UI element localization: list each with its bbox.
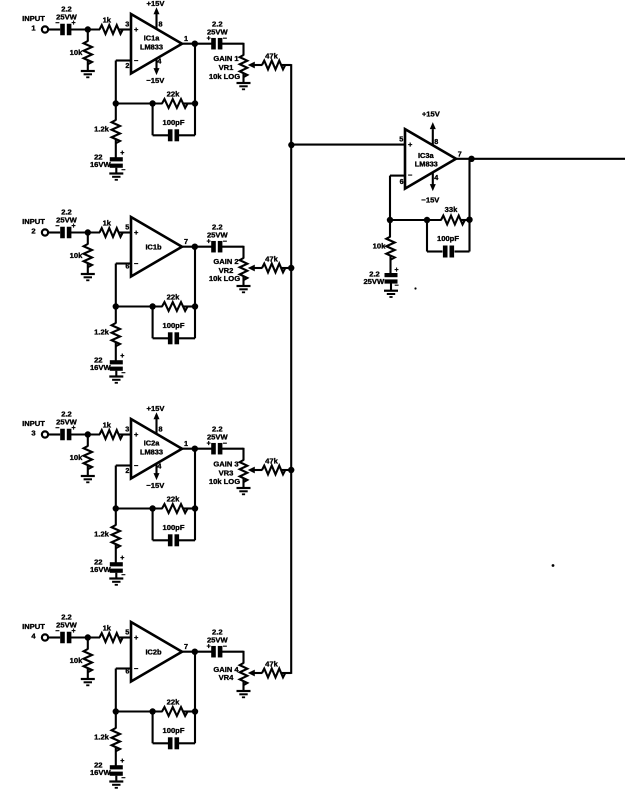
wire ch1 C-gnd to ground xyxy=(115,168,117,174)
svg-text:5: 5 xyxy=(125,223,129,232)
ground below 10k ch4 xyxy=(81,678,95,680)
wire +15V supply IC3a xyxy=(432,129,434,145)
wire ch3 feedback to output node xyxy=(194,449,196,509)
junction IC3a 100pF left node xyxy=(424,217,430,223)
svg-text:4: 4 xyxy=(434,173,438,182)
svg-text:GAIN 2: GAIN 2 xyxy=(213,257,238,266)
capacitor C-gnd ch4 22uF 16VW xyxy=(90,758,125,782)
svg-text:+: + xyxy=(207,644,211,651)
junction 100pF left node ch1 xyxy=(149,100,155,106)
wire ch2 feedback row xyxy=(116,305,163,307)
wire ch3 10k to ground xyxy=(87,466,89,477)
op-amp IC1b ch2 xyxy=(131,217,182,277)
wire -15V supply ch3 xyxy=(155,463,157,473)
wire ch1 op-amp output to C-out xyxy=(182,43,212,45)
ground below C-gnd ch4 xyxy=(109,780,123,782)
svg-text:INPUT: INPUT xyxy=(22,217,45,226)
svg-text:−: − xyxy=(134,56,139,65)
svg-text:+: + xyxy=(394,267,398,274)
resistor 47k ch1 xyxy=(262,52,285,70)
resistor 10k ch4 xyxy=(70,649,92,672)
junction IC3a feedback left node xyxy=(387,217,393,223)
svg-text:100pF: 100pF xyxy=(163,118,185,127)
svg-text:1: 1 xyxy=(31,24,36,33)
svg-text:100pF: 100pF xyxy=(163,726,185,735)
wire ch2 47k to bus xyxy=(281,267,291,269)
svg-text:+: + xyxy=(207,441,211,448)
svg-text:−: − xyxy=(223,440,227,447)
wire IC3a feedback to output xyxy=(468,159,470,220)
input terminal J3 xyxy=(42,431,48,437)
svg-text:1k: 1k xyxy=(103,16,112,25)
svg-text:VR4: VR4 xyxy=(219,673,235,682)
svg-text:+15V: +15V xyxy=(147,404,166,413)
svg-text:+: + xyxy=(207,36,211,43)
capacitor C-in ch2 2.2uF 25VW xyxy=(55,208,77,239)
svg-text:3: 3 xyxy=(125,20,129,29)
svg-text:−: − xyxy=(55,425,59,432)
svg-text:1k: 1k xyxy=(103,219,112,228)
svg-text:7: 7 xyxy=(458,150,462,159)
svg-text:100pF: 100pF xyxy=(163,523,185,532)
svg-text:100pF: 100pF xyxy=(437,234,459,243)
wire ch1 C-out to VR1 xyxy=(221,43,243,45)
wire summing bus vertical xyxy=(290,64,292,674)
svg-text:1k: 1k xyxy=(103,421,112,430)
junction IC3a output node xyxy=(468,156,474,162)
svg-text:16VW: 16VW xyxy=(90,160,112,169)
svg-text:+: + xyxy=(408,140,413,149)
svg-text:INPUT: INPUT xyxy=(22,14,45,23)
svg-text:10k LOG: 10k LOG xyxy=(209,274,240,283)
resistor 22k ch3 xyxy=(162,494,188,513)
node INPUT 4 label xyxy=(22,622,45,641)
potentiometer VR4 GAIN 4 10k LOG xyxy=(213,663,254,685)
junction node A2 xyxy=(85,229,91,235)
junction bus tap to IC3a xyxy=(288,142,294,148)
wire ch4 47k to bus xyxy=(281,672,291,674)
wire ch4 1k to op-amp pin 5 xyxy=(119,636,131,638)
svg-text:47k: 47k xyxy=(265,457,278,466)
junction feedback right node ch1 xyxy=(192,100,198,106)
junction bus channel 2 node xyxy=(288,265,294,271)
svg-text:1.2k: 1.2k xyxy=(94,733,110,742)
resistor 10k ch2 xyxy=(70,244,92,267)
svg-text:IC1b: IC1b xyxy=(145,243,162,252)
svg-text:+: + xyxy=(134,633,139,642)
capacitor C-out ch1 2.2uF 25VW xyxy=(207,20,229,50)
svg-text:+15V: +15V xyxy=(422,109,441,118)
svg-text:22k: 22k xyxy=(167,697,180,706)
junction node A1 xyxy=(85,26,91,32)
wire ch1 feedback row xyxy=(116,102,163,104)
svg-text:+: + xyxy=(71,425,75,432)
op-amp IC1a ch1 xyxy=(131,14,182,74)
wire ch3 terminal to C-in xyxy=(48,433,60,435)
wire ch1 10k to ground xyxy=(87,61,89,72)
svg-text:10k: 10k xyxy=(70,251,83,260)
wire ch3 feedback row xyxy=(116,507,163,509)
ground below C-gnd ch3 xyxy=(109,577,123,579)
op-amp IC3a xyxy=(405,129,456,189)
wire ch4 C-gnd to ground xyxy=(115,776,117,782)
capacitor 100pF ch4 xyxy=(163,726,185,749)
svg-text:10k: 10k xyxy=(70,656,83,665)
capacitor C-out ch4 2.2uF 25VW xyxy=(207,628,229,658)
svg-text:8: 8 xyxy=(434,137,438,146)
junction feedback node F4 xyxy=(113,708,119,714)
capacitor C-in ch1 2.2uF 25VW xyxy=(55,5,77,36)
svg-text:LM833: LM833 xyxy=(415,160,438,169)
ground below VR3 xyxy=(237,487,251,489)
svg-text:+: + xyxy=(120,353,124,360)
potentiometer VR2 GAIN 2 10k LOG xyxy=(209,257,255,283)
svg-text:5: 5 xyxy=(125,628,129,637)
svg-text:+: + xyxy=(71,20,75,27)
capacitor C-gnd ch1 22uF 16VW xyxy=(90,150,125,174)
junction output node B2 xyxy=(192,244,198,250)
svg-text:10k: 10k xyxy=(70,453,83,462)
wire ch3 op-amp output to C-out xyxy=(182,448,212,450)
potentiometer VR1 GAIN 1 10k LOG xyxy=(209,54,255,81)
svg-text:47k: 47k xyxy=(265,255,278,264)
wire ch4 1.2k to C-gnd xyxy=(115,748,117,766)
svg-text:22k: 22k xyxy=(167,292,180,301)
wire VR2 to ground xyxy=(242,276,244,286)
ground below IC3a C-gnd xyxy=(384,290,398,292)
resistor 22k ch2 xyxy=(162,292,188,311)
svg-text:−: − xyxy=(223,35,227,42)
resistor 1k ch4 xyxy=(100,624,123,642)
svg-text:−: − xyxy=(134,461,139,470)
wire ch1 1.2k to C-gnd xyxy=(115,140,117,158)
junction bus channel 3 node xyxy=(288,467,294,473)
capacitor C-out ch2 2.2uF 25VW xyxy=(207,223,229,253)
svg-text:10k: 10k xyxy=(70,48,83,57)
input terminal J2 xyxy=(42,229,48,235)
wire ch3 C-out to VR3 xyxy=(221,448,243,450)
node INPUT 2 label xyxy=(22,217,45,236)
op-amp IC2a ch3 xyxy=(131,419,182,479)
resistor 22k ch1 xyxy=(162,89,188,108)
svg-text:+: + xyxy=(71,628,75,635)
svg-text:16VW: 16VW xyxy=(90,565,112,574)
svg-text:1: 1 xyxy=(184,34,188,43)
wire ch2 1.2k to C-gnd xyxy=(115,343,117,361)
svg-text:+: + xyxy=(71,223,75,230)
capacitor C-in ch3 2.2uF 25VW xyxy=(55,410,77,441)
wire IC3a inverting input to feedback xyxy=(390,175,406,177)
junction node A4 xyxy=(85,634,91,640)
capacitor C-gnd ch2 22uF 16VW xyxy=(90,353,125,377)
svg-text:−15V: −15V xyxy=(421,196,440,205)
node INPUT 1 label xyxy=(22,14,45,33)
svg-text:22k: 22k xyxy=(167,494,180,503)
resistor 1.2k ch2 xyxy=(94,323,120,346)
svg-text:22k: 22k xyxy=(167,89,180,98)
resistor 1k ch1 xyxy=(100,16,123,34)
junction output node B1 xyxy=(192,41,198,47)
svg-text:+: + xyxy=(134,430,139,439)
capacitor C-out ch3 2.2uF 25VW xyxy=(207,425,229,455)
svg-text:+15V: +15V xyxy=(147,0,166,8)
capacitor 2.2uF 25VW IC3a xyxy=(363,267,398,290)
svg-text:−: − xyxy=(134,664,139,673)
svg-text:−: − xyxy=(223,238,227,245)
ground below C-gnd ch2 xyxy=(109,375,123,377)
wire ch2 terminal to C-in xyxy=(48,231,60,233)
svg-text:−: − xyxy=(223,643,227,650)
junction IC3a feedback right node xyxy=(466,217,472,223)
svg-text:LM833: LM833 xyxy=(140,42,163,51)
svg-text:4: 4 xyxy=(157,462,161,471)
svg-text:GAIN 1: GAIN 1 xyxy=(213,54,239,63)
svg-text:16VW: 16VW xyxy=(90,363,112,372)
wire ch4 C-out to VR4 xyxy=(221,651,243,653)
wire -15V supply ch1 xyxy=(155,58,157,68)
wire ch2 inverting input to feedback node xyxy=(116,262,132,264)
ground below C-gnd ch1 xyxy=(109,172,123,174)
junction output node B4 xyxy=(192,649,198,655)
wire ch3 C-in to node A3 xyxy=(71,433,101,435)
wire ch4 terminal to C-in xyxy=(48,636,60,638)
wire ch4 inverting input to feedback node xyxy=(116,667,132,669)
wire IC3a C-gnd to ground xyxy=(390,283,392,290)
junction 100pF left node ch3 xyxy=(149,505,155,511)
wire ch3 100pF loop xyxy=(152,509,154,541)
capacitor 100pF ch1 xyxy=(163,118,185,141)
resistor 1.2k ch3 xyxy=(94,525,120,548)
svg-text:IC2a: IC2a xyxy=(144,439,161,448)
wire ch4 op-amp output to C-out xyxy=(182,651,212,653)
wire ch1 C-in to node A1 xyxy=(71,28,101,30)
stray mark 2 xyxy=(414,287,416,289)
wire ch3 feedback node to 1.2k xyxy=(115,509,117,526)
wire ch3 1.2k to C-gnd xyxy=(115,545,117,563)
svg-text:2: 2 xyxy=(125,61,129,70)
svg-text:−15V: −15V xyxy=(146,481,165,490)
wire ch3 1k to op-amp pin 3 xyxy=(119,433,131,435)
resistor 10k IC3a xyxy=(373,237,395,260)
junction output node B3 xyxy=(192,446,198,452)
wire ch2 feedback node to 1.2k xyxy=(115,307,117,324)
svg-text:8: 8 xyxy=(159,20,163,29)
capacitor 100pF IC3a xyxy=(437,234,459,258)
potentiometer VR3 GAIN 3 10k LOG xyxy=(209,460,255,487)
svg-text:3: 3 xyxy=(31,429,35,438)
svg-text:1: 1 xyxy=(184,439,188,448)
wire ch3 inverting input to feedback node xyxy=(116,464,132,466)
svg-text:LM833: LM833 xyxy=(140,447,163,456)
resistor 1.2k ch4 xyxy=(94,728,120,751)
svg-text:+: + xyxy=(207,239,211,246)
junction feedback node F1 xyxy=(113,100,119,106)
input terminal J1 xyxy=(42,26,48,32)
svg-text:100pF: 100pF xyxy=(163,321,185,330)
wire ch1 feedback to output node xyxy=(194,44,196,104)
wire ch3 node A3 down to 10k xyxy=(87,435,89,447)
wire ch4 10k to ground xyxy=(87,669,89,680)
svg-text:−: − xyxy=(55,628,59,635)
wire ch4 feedback node to 1.2k xyxy=(115,712,117,729)
+15V arrow IC3a xyxy=(430,122,436,129)
wire ch2 node A2 down to 10k xyxy=(87,233,89,245)
svg-text:IC2b: IC2b xyxy=(145,648,162,657)
svg-text:3: 3 xyxy=(125,425,129,434)
capacitor C-in ch4 2.2uF 25VW xyxy=(55,613,77,644)
wire ch2 10k to ground xyxy=(87,264,89,275)
stray mark xyxy=(552,564,555,567)
capacitor C-gnd ch3 22uF 16VW xyxy=(90,555,125,579)
svg-text:−: − xyxy=(55,223,59,230)
junction feedback right node ch4 xyxy=(192,708,198,714)
junction 100pF left node ch2 xyxy=(149,303,155,309)
resistor 47k ch2 xyxy=(262,255,285,273)
svg-text:IC1a: IC1a xyxy=(144,34,161,43)
svg-text:47k: 47k xyxy=(265,660,278,669)
wire ch2 1k to op-amp pin 5 xyxy=(119,231,131,233)
wire IC3a 10k to C-gnd xyxy=(389,256,391,274)
svg-text:6: 6 xyxy=(400,177,404,186)
wire ch4 feedback to output node xyxy=(194,652,196,712)
junction feedback right node ch2 xyxy=(192,303,198,309)
wire ch4 100pF loop xyxy=(152,712,154,744)
wire IC3a feedback node to 10k xyxy=(389,220,391,237)
svg-text:7: 7 xyxy=(184,237,188,246)
ground below VR2 xyxy=(237,285,251,287)
svg-text:+: + xyxy=(120,758,124,765)
ground below 10k ch2 xyxy=(81,273,95,275)
wire IC3a output line xyxy=(456,158,625,160)
resistor 1k ch3 xyxy=(100,421,123,439)
wire ch2 op-amp output to C-out xyxy=(182,246,212,248)
capacitor 100pF ch3 xyxy=(163,523,185,546)
svg-text:2: 2 xyxy=(31,227,35,236)
junction feedback node F2 xyxy=(113,303,119,309)
resistor 22k ch4 xyxy=(162,697,188,715)
svg-text:16VW: 16VW xyxy=(90,768,112,777)
wire ch3 C-gnd to ground xyxy=(115,573,117,579)
svg-text:1k: 1k xyxy=(103,624,112,633)
op-amp IC2b ch4 xyxy=(131,622,182,682)
wire IC3a 100pF loop xyxy=(426,220,428,252)
wire ch1 terminal to C-in xyxy=(48,28,60,30)
svg-text:10k LOG: 10k LOG xyxy=(209,477,240,486)
wire -15V supply IC3a xyxy=(432,173,434,187)
wire ch4 feedback row xyxy=(116,710,163,712)
wire VR1 to ground xyxy=(242,73,244,83)
resistor 33k IC3a xyxy=(441,205,465,225)
+15V arrow ch3 xyxy=(154,412,160,419)
ground below VR1 xyxy=(237,82,251,84)
junction feedback node F3 xyxy=(113,505,119,511)
wire ch1 47k to bus xyxy=(281,64,291,66)
svg-text:INPUT: INPUT xyxy=(22,622,45,631)
junction 100pF left node ch4 xyxy=(149,708,155,714)
svg-text:−: − xyxy=(394,283,398,290)
svg-text:GAIN 3: GAIN 3 xyxy=(213,460,238,469)
svg-text:4: 4 xyxy=(31,632,36,641)
wire +15V supply ch3 xyxy=(155,419,157,435)
wire wiper VR1 to 47k xyxy=(253,64,262,66)
-15V arrow ch1 xyxy=(154,68,160,75)
wire ch4 node A4 down to 10k xyxy=(87,638,89,650)
ground below 10k ch1 xyxy=(81,70,95,72)
svg-text:+: + xyxy=(134,25,139,34)
wire ch1 inverting input to feedback node xyxy=(116,59,132,61)
input terminal J4 xyxy=(42,634,48,640)
wire ch1 feedback node to 1.2k xyxy=(115,104,117,121)
wire wiper VR3 to 47k xyxy=(253,469,262,471)
wire wiper VR4 to 47k xyxy=(253,672,262,674)
node INPUT 3 label xyxy=(22,419,45,438)
wire ch2 feedback to output node xyxy=(194,247,196,307)
svg-text:−: − xyxy=(134,259,139,268)
svg-text:1.2k: 1.2k xyxy=(94,125,110,134)
svg-text:8: 8 xyxy=(159,425,163,434)
+15V arrow ch1 xyxy=(154,7,160,14)
wire ch1 node A1 down to 10k xyxy=(87,30,89,42)
wire ch4 C-in to node A4 xyxy=(71,636,101,638)
svg-text:−: − xyxy=(408,171,413,180)
svg-text:5: 5 xyxy=(399,135,403,144)
resistor 47k ch3 xyxy=(262,457,285,475)
svg-text:2: 2 xyxy=(125,466,129,475)
wire ch3 47k to bus xyxy=(281,469,291,471)
-15V arrow IC3a xyxy=(430,184,436,191)
svg-text:1.2k: 1.2k xyxy=(94,530,110,539)
resistor 1k ch2 xyxy=(100,219,123,237)
svg-text:7: 7 xyxy=(184,642,188,651)
svg-text:25VW: 25VW xyxy=(363,277,385,286)
svg-text:+: + xyxy=(120,555,124,562)
svg-text:+: + xyxy=(134,228,139,237)
wire ch2 100pF loop xyxy=(152,307,154,339)
svg-text:10k LOG: 10k LOG xyxy=(209,72,240,81)
svg-text:−15V: −15V xyxy=(146,76,165,85)
svg-text:47k: 47k xyxy=(265,52,278,61)
svg-text:+: + xyxy=(120,150,124,157)
svg-text:VR1: VR1 xyxy=(219,63,235,72)
svg-text:1.2k: 1.2k xyxy=(94,328,110,337)
wire VR3 to ground xyxy=(242,478,244,488)
wire ch2 C-out to VR2 xyxy=(221,246,243,248)
junction feedback right node ch3 xyxy=(192,505,198,511)
svg-text:−: − xyxy=(55,20,59,27)
wire ch1 100pF loop xyxy=(152,104,154,136)
resistor 10k ch3 xyxy=(70,446,92,469)
ground below VR4 xyxy=(237,690,251,692)
svg-text:INPUT: INPUT xyxy=(22,419,45,428)
resistor 1.2k ch1 xyxy=(94,120,120,143)
junction node A3 xyxy=(85,431,91,437)
wire VR4 to ground xyxy=(242,681,244,691)
capacitor 100pF ch2 xyxy=(163,321,185,344)
wire ch2 C-gnd to ground xyxy=(115,371,117,377)
wire +15V supply ch1 xyxy=(155,14,157,30)
wire wiper VR2 to 47k xyxy=(253,267,262,269)
svg-text:10k: 10k xyxy=(373,242,386,251)
svg-text:4: 4 xyxy=(157,57,161,66)
ground below 10k ch3 xyxy=(81,475,95,477)
wire bus to IC3a pin 5 xyxy=(291,144,405,146)
-15V arrow ch3 xyxy=(154,473,160,480)
wire IC3a feedback row xyxy=(390,219,442,221)
resistor 47k ch4 xyxy=(262,660,285,678)
wire ch1 1k to op-amp pin 3 xyxy=(119,28,131,30)
wire ch2 C-in to node A2 xyxy=(71,231,101,233)
svg-text:33k: 33k xyxy=(445,205,458,214)
